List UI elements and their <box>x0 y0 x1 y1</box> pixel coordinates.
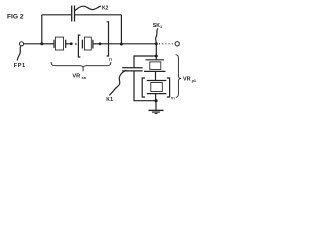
wire: crystal 1 to junction <box>66 43 72 45</box>
node SK1 junction dot <box>155 42 158 45</box>
leader line to K2 label <box>75 6 101 11</box>
resonator VRp1 shunt crystal <box>144 60 166 72</box>
svg-text:p1: p1 <box>192 79 196 83</box>
junction dot after VR1 <box>70 42 73 45</box>
leader line to K1 label <box>109 70 126 95</box>
wire: crystal n to junction <box>93 43 100 45</box>
bracket ] of series stage n <box>107 22 109 56</box>
resonator VRpm shunt crystal <box>147 81 167 94</box>
node C junction dot <box>155 55 158 58</box>
node A junction dot <box>40 42 43 45</box>
leader line to SK1 label <box>156 29 158 43</box>
right brace for shunt chain <box>176 55 181 98</box>
wire: ground node to ground symbol <box>155 101 157 111</box>
junction dot after VRn <box>99 42 102 45</box>
svg-text:FIG 2: FIG 2 <box>7 14 24 21</box>
svg-text:K2: K2 <box>102 6 109 12</box>
svg-text:m: m <box>171 96 175 101</box>
terminal SK1 (open circle) <box>175 42 179 46</box>
bracket ] of shunt stage m <box>167 78 170 97</box>
ground <box>149 110 164 113</box>
wire: between shunt crystals <box>155 71 157 80</box>
resonator VR1 series crystal <box>54 37 66 50</box>
wire: SK node down to node C <box>155 44 157 56</box>
terminal FP1 (open circle) <box>19 42 23 46</box>
svg-text:VR: VR <box>183 76 191 82</box>
bracket [ of series stage n <box>78 35 80 57</box>
capacitor K1 <box>122 67 142 69</box>
underbrace for series chain <box>51 62 111 67</box>
wire: top rail right segment <box>75 14 122 16</box>
svg-text:n: n <box>109 57 112 63</box>
wire: FP1 terminal to node A <box>24 43 42 45</box>
leader line to FP1 label <box>17 46 21 60</box>
resonator VRn series crystal <box>82 37 93 50</box>
wire: branch left to capacitor K1 <box>134 56 156 68</box>
svg-text:sn: sn <box>82 75 87 80</box>
ground node junction dot <box>154 99 157 102</box>
wire: bus from junction to SK node <box>100 43 156 45</box>
wire: top rail left segment <box>42 14 72 16</box>
wire: shunt chain to ground node <box>155 94 157 101</box>
dotted wire to output terminal <box>159 43 174 45</box>
svg-text:K1: K1 <box>106 97 113 103</box>
svg-text:VR: VR <box>72 73 80 79</box>
wire: node A to crystal VR1 <box>42 43 54 45</box>
bracket [ of shunt stage m <box>142 78 145 97</box>
ellipsis dots (repeated stages) <box>75 43 77 44</box>
svg-text:FP1: FP1 <box>14 63 26 69</box>
svg-text:1: 1 <box>160 25 162 29</box>
wire: node C down to shunt crystal chain <box>155 56 157 60</box>
wire: top rail drop to node B <box>120 15 122 44</box>
wire: K1 bottom to ground node <box>134 71 156 101</box>
node B junction dot <box>120 43 123 46</box>
capacitor K2 <box>71 6 73 22</box>
wire: node A up to top rail <box>41 15 43 44</box>
